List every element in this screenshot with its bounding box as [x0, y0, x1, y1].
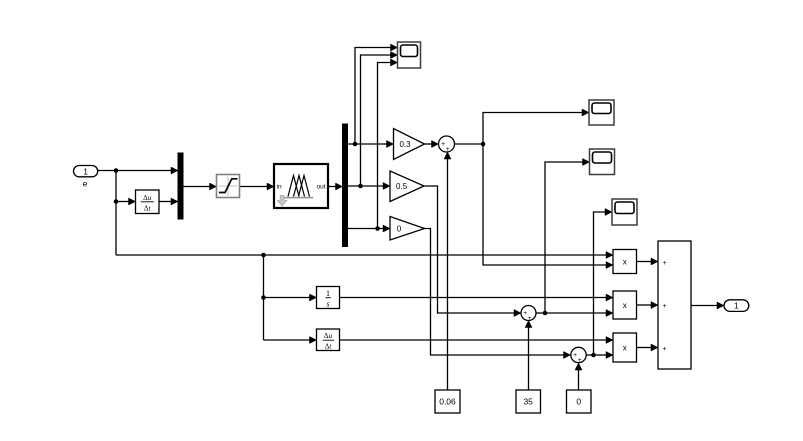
svg-text:0.06: 0.06: [439, 397, 456, 407]
svg-text:x: x: [623, 343, 627, 352]
svg-text:in: in: [277, 184, 282, 191]
svg-text:x: x: [623, 301, 627, 310]
svg-text:x: x: [623, 257, 627, 266]
svg-text:Δt: Δt: [325, 343, 333, 351]
svg-text:+: +: [441, 141, 445, 148]
svg-text:+: +: [573, 352, 577, 359]
svg-text:+: +: [446, 146, 450, 153]
svg-text:0: 0: [397, 224, 402, 233]
svg-text:1: 1: [326, 289, 330, 298]
svg-text:Δt: Δt: [144, 204, 152, 212]
svg-text:Δu: Δu: [324, 332, 333, 340]
svg-text:0.5: 0.5: [396, 182, 408, 191]
svg-text:+: +: [578, 357, 582, 364]
svg-text:35: 35: [523, 397, 533, 407]
svg-text:+: +: [663, 303, 667, 310]
svg-text:0.3: 0.3: [399, 140, 411, 149]
svg-text:out: out: [316, 184, 325, 191]
svg-text:e: e: [83, 179, 88, 189]
svg-text:Δu: Δu: [143, 194, 152, 202]
svg-text:s: s: [326, 300, 329, 309]
svg-text:+: +: [663, 260, 667, 267]
svg-text:+: +: [528, 315, 532, 322]
svg-text:+: +: [663, 346, 667, 353]
svg-text:+: +: [523, 310, 527, 317]
svg-text:1: 1: [83, 166, 88, 176]
svg-text:1: 1: [734, 301, 739, 311]
svg-text:0: 0: [576, 397, 581, 407]
